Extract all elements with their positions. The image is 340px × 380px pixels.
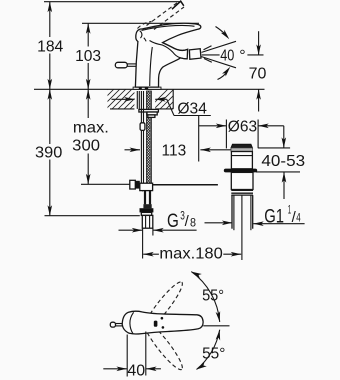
dimension 70	[247, 31, 266, 111]
top view: angular arc upper 55	[190, 270, 224, 323]
svg-text:300: 300	[72, 137, 100, 154]
extension line top of lever at rest (103 top)	[82, 22, 199, 24]
rod coupler	[140, 123, 145, 131]
dimension G3/8	[119, 210, 197, 258]
svg-text:103: 103	[75, 48, 101, 65]
spout bottom edge / dome	[150, 41, 188, 59]
flange black band	[224, 169, 257, 173]
aerator block	[189, 49, 201, 60]
upper body	[231, 152, 252, 169]
dimension 390	[35, 89, 62, 215]
body outline	[135, 23, 200, 87]
svg-text:390: 390	[35, 144, 62, 161]
faucet body side view	[115, 1, 201, 89]
hose hex nut	[140, 208, 154, 212]
svg-text:4: 4	[296, 213, 301, 225]
raised lever tip	[172, 1, 184, 9]
svg-text:max.: max.	[73, 119, 109, 136]
svg-text:G1: G1	[264, 206, 284, 227]
G3/8 thread stub	[142, 215, 153, 228]
svg-text:8: 8	[190, 217, 196, 229]
pop-up rod	[140, 91, 142, 184]
svg-text:40: 40	[220, 48, 234, 65]
dimension 103	[75, 23, 101, 89]
svg-text:113: 113	[162, 142, 187, 159]
top view: lever/body paddle outline	[122, 311, 203, 334]
thread relief rings	[231, 189, 253, 191]
dimension Ø63	[199, 118, 284, 148]
lower body	[231, 172, 253, 189]
deck slab hatching left of hole	[88, 89, 150, 109]
threaded stud	[147, 91, 152, 186]
dome cap	[231, 144, 252, 148]
svg-text:Ø34: Ø34	[177, 101, 207, 118]
shank pipes visible in deck hole	[136, 91, 138, 109]
pull rod knob	[115, 62, 127, 68]
dimension Ø34 with leader	[112, 97, 211, 118]
base plate	[133, 87, 161, 89]
deck right edge	[172, 89, 174, 109]
hose crimp	[143, 204, 151, 208]
extension line max300 bottom	[81, 183, 130, 185]
lever knob front strokes	[140, 31, 142, 38]
dimension G1 1/4	[205, 205, 305, 228]
linkage clamp black block	[135, 181, 140, 189]
dimension 40-53	[256, 126, 305, 199]
spout top edge	[163, 43, 188, 51]
horizontal pop-up linkage rod	[140, 184, 218, 186]
40 deg arc arrows	[216, 27, 246, 80]
svg-text:55°: 55°	[202, 345, 225, 362]
dimension 113	[125, 116, 232, 162]
hose coupling nut	[140, 183, 153, 190]
mounting nut	[147, 112, 157, 115]
svg-text:70: 70	[249, 65, 267, 82]
black marks at base bottom	[139, 88, 142, 90]
top view: horizontal reference line	[203, 325, 229, 327]
top view: lever bar mark	[154, 321, 158, 327]
svg-text:°: °	[239, 48, 245, 65]
svg-text:40: 40	[127, 362, 145, 379]
top view: dashed ellipse lever up 55	[139, 278, 186, 333]
drain pop-up waste assembly	[224, 144, 257, 230]
extension line top of raised lever (184 top)	[44, 1, 181, 3]
deck bottom edge	[110, 108, 134, 110]
body front crease	[150, 47, 153, 86]
cap shade band	[231, 148, 252, 152]
dimension 184	[37, 2, 63, 90]
linkage clamp white block	[130, 180, 136, 189]
top view: inner cap arc	[130, 312, 134, 333]
extension line hose end (390 bottom)	[45, 215, 140, 217]
braided hose	[144, 191, 146, 205]
top view: dot marks	[161, 317, 164, 320]
top view: angular arc lower 55	[195, 329, 225, 371]
extension line mounting surface / deck top	[34, 88, 265, 90]
svg-text:Ø63: Ø63	[228, 118, 257, 135]
top view: pull rod	[116, 323, 123, 325]
dimension 40 (top view)	[103, 332, 161, 380]
svg-text:max.180: max.180	[159, 245, 222, 262]
washer under deck	[139, 109, 159, 112]
deck slab hatching right of hole	[148, 89, 192, 109]
raised lever dashed	[138, 22, 152, 29]
dimension max.180	[143, 195, 242, 262]
top view: dashed ellipse lever down 55	[139, 318, 186, 373]
svg-text:G: G	[167, 211, 179, 232]
dimension max. 300	[72, 89, 109, 184]
svg-text:40-53: 40-53	[261, 153, 305, 170]
svg-text:184: 184	[37, 39, 63, 56]
rod tip dart	[141, 184, 144, 192]
lever inner crease	[142, 25, 195, 30]
spray fan 40 deg rays	[202, 41, 237, 68]
tail pipe	[231, 195, 233, 229]
svg-text:55°: 55°	[202, 288, 224, 305]
under-deck assembly	[130, 91, 218, 228]
